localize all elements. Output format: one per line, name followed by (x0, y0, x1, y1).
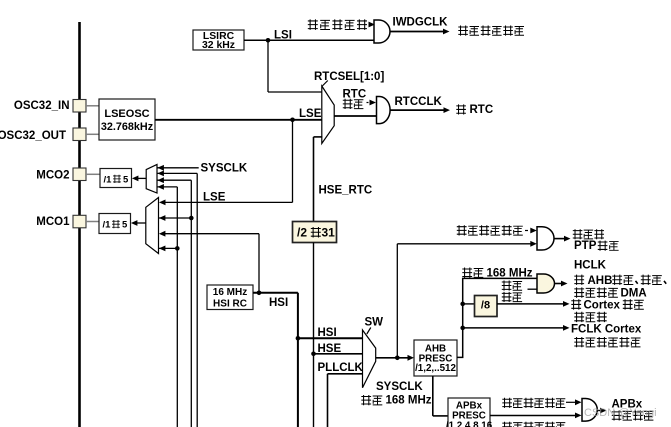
mux RTCSEL select tick (322, 81, 328, 87)
label HSE at SW mux (318, 343, 342, 355)
wire MCO1 mux input4 (159, 246, 178, 252)
svg-text:RTCCLK: RTCCLK (395, 96, 443, 108)
node HSI junction at SW (296, 336, 301, 341)
wire MCO1 mux output (131, 220, 146, 226)
label RTCSEL[1:0] (314, 71, 384, 83)
prescaler AHB box (414, 340, 457, 376)
wire OSC32_OUT stub (86, 133, 99, 135)
svg-text:Cortex: Cortex (584, 300, 621, 312)
svg-text:/1: /1 (103, 220, 112, 231)
wire HCLK trunk (457, 278, 537, 357)
wire MCO2 mux input2 (157, 171, 197, 427)
wire PTP output (555, 236, 571, 242)
wire HSI output (253, 292, 298, 294)
oscillator HSI RC box (207, 285, 253, 310)
svg-text:LSEOSC: LSEOSC (104, 108, 149, 120)
svg-text:SW: SW (365, 316, 384, 328)
device boundary line (78, 22, 81, 427)
svg-text:FCLK Cortex: FCLK Cortex (571, 323, 642, 335)
node Cortex timer junction (460, 302, 465, 307)
node LSI junction (266, 38, 271, 43)
svg-text:31: 31 (322, 226, 336, 240)
label PLLCLK (318, 362, 364, 374)
label SYSCLK output (376, 381, 423, 393)
svg-text:/2: /2 (297, 226, 307, 240)
label Ethernet (573, 229, 604, 239)
watermark (584, 407, 657, 419)
label LSE at MCO1 mux (203, 191, 226, 203)
svg-text:168 MHz: 168 MHz (386, 395, 432, 407)
svg-text:OSC32_IN: OSC32_IN (14, 100, 70, 112)
wire LSE branch to MCO1 mux (159, 120, 293, 206)
wire HSE_RTC (314, 137, 323, 222)
wire FCLK (463, 325, 570, 331)
wire MCO2 mux input3 (157, 177, 191, 427)
wire PLLCLK (328, 374, 364, 427)
label to RTC (456, 104, 493, 116)
label timer (574, 312, 606, 322)
wire HSI branch to MCO1 mux (159, 231, 259, 293)
svg-text:CSDN @Yengi: CSDN @Yengi (584, 407, 657, 419)
svg-text:HSI: HSI (269, 297, 288, 309)
label LSEOSC 32.768kHz (101, 108, 154, 133)
svg-text:HSE: HSE (318, 343, 342, 355)
svg-text:OSC32_OUT: OSC32_OUT (0, 130, 66, 142)
mux MCO2 (146, 165, 157, 194)
mux MCO1 (146, 198, 159, 254)
wire HSE into SW mux (314, 353, 364, 355)
label HSI (269, 297, 288, 309)
wire MCO2 mux output (132, 176, 146, 182)
svg-text:LSE: LSE (203, 191, 226, 203)
label watchdog enable (308, 19, 367, 30)
label MCO1 /1to5 (103, 220, 129, 231)
label /2to31 (297, 226, 335, 240)
node HSI junction at box (257, 291, 262, 296)
wire MCO1 mux input2 (159, 215, 192, 221)
svg-text:5: 5 (123, 174, 129, 185)
label HSE_RTC (319, 184, 373, 196)
label to Cortex system (571, 299, 644, 311)
label memory and DMA (574, 287, 646, 299)
wire LSI (244, 39, 375, 41)
wire MCO1 stub (86, 221, 99, 223)
label to independent watchdog (458, 25, 524, 35)
label HCLK (574, 260, 607, 272)
svg-text:RTCSEL[1:0]: RTCSEL[1:0] (314, 71, 384, 83)
label peripheral clock enable APBx (502, 398, 565, 408)
svg-text:PLLCLK: PLLCLK (318, 362, 364, 374)
label /8 (481, 299, 490, 311)
wire IWDGCLK (391, 29, 450, 35)
label OSC32_OUT (0, 130, 66, 142)
label APBx PRESC (446, 401, 493, 427)
label max 168 MHz HCLK (462, 267, 532, 279)
svg-text:SYSCLK: SYSCLK (376, 381, 423, 393)
node LSE junction (290, 118, 295, 123)
wire clock enable stub (528, 288, 538, 290)
svg-text:AHB: AHB (588, 275, 613, 287)
divider MCO2 /1to5 box (100, 169, 132, 188)
label LSI (274, 29, 292, 41)
svg-text:RTC: RTC (343, 88, 367, 100)
node HSE junction (311, 352, 316, 357)
wire watchdog enable arrow (369, 22, 376, 28)
pin MCO2 pad (73, 168, 86, 181)
divider /2to31 box (293, 222, 337, 243)
svg-text:/1,2,..512: /1,2,..512 (415, 363, 456, 374)
label to AHB bus core (574, 275, 666, 287)
svg-text:/1: /1 (104, 174, 113, 185)
wire MCO2 mux input4 (157, 184, 177, 427)
label APBx (612, 398, 643, 410)
wire APBx presc output (490, 413, 582, 419)
label SW (365, 316, 384, 328)
wire PTP enable arrow (525, 228, 537, 234)
label IWDGCLK (393, 17, 449, 29)
node SYSCLK junction (395, 356, 400, 361)
label MCO1 (36, 216, 70, 228)
mux RTCSEL (322, 86, 334, 144)
mux SW (363, 330, 376, 388)
wire SYSCLK to PTP gate (397, 241, 537, 358)
svg-text:LSI: LSI (274, 29, 292, 41)
svg-text:PTP: PTP (574, 240, 597, 252)
svg-text:5: 5 (122, 220, 128, 231)
svg-text:HCLK: HCLK (574, 260, 607, 272)
oscillator LSIRC box (193, 30, 244, 50)
svg-text:DMA: DMA (621, 287, 647, 299)
svg-text:LSE: LSE (299, 108, 322, 120)
label 16 MHz HSI RC (213, 287, 247, 309)
node MCO1 input2 junction (189, 216, 194, 221)
gate HCLK clock gate (537, 274, 555, 293)
label LSIRC 32 kHz (202, 31, 235, 51)
wire Cortex systick (497, 301, 570, 307)
label peripheral clock enable PTP (457, 225, 523, 235)
divider MCO1 /1to5 box (99, 214, 131, 234)
svg-text:/8: /8 (481, 299, 490, 311)
svg-text:MCO1: MCO1 (36, 216, 70, 228)
wire MCO2 stub (86, 173, 100, 175)
gate PTP clock gate (537, 227, 554, 250)
svg-text:RTC: RTC (470, 104, 494, 116)
wire HSI into SW mux (298, 337, 363, 339)
wire APBx enable arrow (566, 399, 582, 405)
label AHB PRESC (415, 344, 456, 374)
wire RTC mux output (334, 115, 377, 117)
svg-text:MCO2: MCO2 (36, 170, 69, 182)
wire /8 feed (463, 303, 475, 305)
wire HSI vertical (297, 293, 299, 427)
divider /8 box (475, 296, 498, 317)
wire SYSCLK stub to MCO2 mux (157, 165, 199, 171)
wire OSC32_IN stub (86, 105, 99, 107)
wire LSI to RTC mux (268, 40, 322, 92)
pin MCO1 pad (73, 215, 86, 228)
svg-text:32 kHz: 32 kHz (202, 40, 235, 51)
label PTP clock (574, 240, 619, 252)
svg-text:16 MHz: 16 MHz (213, 287, 247, 298)
label RTCCLK (395, 96, 443, 108)
label MCO2 /1to5 (104, 174, 130, 185)
wire APBx gate output (598, 408, 607, 414)
mux SW select tick (367, 328, 371, 335)
label free running clock (574, 337, 640, 347)
wire HCLK output (555, 281, 568, 287)
wire SYSCLK output (376, 355, 414, 361)
pin OSC32_IN pad (73, 100, 86, 113)
gate IWDG clock gate (374, 20, 390, 43)
label LSE (299, 108, 322, 120)
label RTC enable (343, 88, 367, 109)
label clock enable (502, 280, 522, 301)
wire RTC enable arrow (367, 100, 377, 106)
node MCO1 input4 junction (175, 246, 180, 251)
svg-text:HSE_RTC: HSE_RTC (319, 184, 373, 196)
svg-text:IWDGCLK: IWDGCLK (393, 17, 449, 29)
oscillator LSEOSC box (99, 99, 155, 140)
node FCLK junction (460, 326, 465, 331)
svg-text:32.768kHz: 32.768kHz (101, 121, 154, 133)
wire RTCCLK (390, 107, 450, 113)
svg-text:HSI: HSI (318, 327, 337, 339)
label max 168 MHz (361, 395, 431, 407)
wire AHB to APBx (433, 376, 448, 416)
wire HSE vertical (313, 243, 315, 427)
wire LSE (155, 119, 322, 121)
label OSC32_IN (14, 100, 70, 112)
label MCO2 (36, 170, 69, 182)
label HSI at SW mux (318, 327, 337, 339)
svg-text:/1,2,4,8,16: /1,2,4,8,16 (446, 420, 493, 427)
prescaler APBx box (448, 398, 490, 427)
gate APBx clock gate (582, 399, 597, 422)
label APBx peripheral clock (612, 410, 654, 420)
label peripheral clock enable bottom (502, 422, 565, 427)
svg-text:SYSCLK: SYSCLK (201, 163, 248, 175)
gate RTC clock gate (377, 97, 391, 124)
label SYSCLK (201, 163, 248, 175)
svg-text:HSI RC: HSI RC (213, 298, 247, 309)
pin OSC32_OUT pad (73, 128, 86, 141)
svg-text:168 MHz: 168 MHz (487, 267, 533, 279)
label FCLK Cortex (571, 323, 642, 335)
